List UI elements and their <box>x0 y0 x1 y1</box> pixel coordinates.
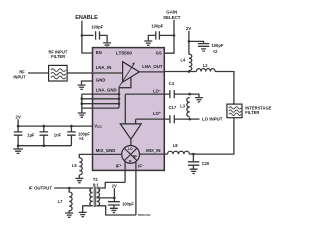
wire LNA_GND bundle lines <box>82 94 119 108</box>
wire IF+ line <box>124 162 126 183</box>
capacitor C 1uF <box>14 126 23 146</box>
svg-text:1µF: 1µF <box>27 133 35 138</box>
svg-text:8:1: 8:1 <box>93 182 100 187</box>
svg-text:LNA_IN: LNA_IN <box>96 65 112 70</box>
wire vcc bottom rail <box>18 145 71 147</box>
svg-text:SELECT: SELECT <box>163 15 181 20</box>
capacitor C4 <box>164 90 189 98</box>
node L4 bottom <box>188 70 191 73</box>
mixer M1 circle <box>122 146 140 164</box>
capacitor C20 <box>188 154 199 169</box>
ground (LNA_GND) <box>78 113 86 117</box>
svg-text:VCC: VCC <box>94 123 102 129</box>
ground (GND pin) <box>78 85 86 89</box>
gain arrow <box>119 64 134 87</box>
wire amp to mixer <box>130 139 132 145</box>
wire GS to C-gs <box>160 34 175 36</box>
svg-text:L3: L3 <box>180 104 186 109</box>
capacitor C-if 100pF <box>108 198 120 208</box>
inductor L7 <box>69 188 72 213</box>
wire ENABLE to C-enable <box>82 34 94 36</box>
svg-text:RF: RF <box>133 155 137 159</box>
node amp-gnd dots <box>118 93 121 96</box>
wire T2 center tap <box>97 197 115 199</box>
node C17 L3 junction <box>188 118 191 121</box>
wire ENABLE vertical <box>82 21 93 53</box>
ground (C-if) <box>110 208 118 212</box>
svg-text:GS: GS <box>156 51 162 56</box>
capacitor C 100pF x4 <box>67 126 76 146</box>
node GS junction <box>173 34 176 37</box>
op-amp A2 LO buffer <box>120 124 141 139</box>
wire MIX_GND to L5 <box>79 154 121 158</box>
svg-text:×4: ×4 <box>79 136 84 141</box>
wire filter to MIX_IN row <box>193 118 234 154</box>
capacitor C 1nF <box>40 126 49 146</box>
wire 2V stub <box>113 188 115 198</box>
filter FL1 RF input filter box <box>49 65 68 81</box>
wire GND pin <box>82 81 93 85</box>
inductor L5 <box>79 158 82 175</box>
capacitor 100pF x2 with ground <box>198 44 209 52</box>
wire T2 primary bottom to IF- <box>97 206 136 215</box>
wire C-gs to ground <box>148 35 156 40</box>
svg-text:L5: L5 <box>72 163 78 168</box>
wire T2 primary top to IF+ <box>97 182 125 188</box>
wire filter to LNA_IN <box>67 72 123 74</box>
ground (vcc rail) <box>13 149 23 153</box>
svg-text:2V: 2V <box>16 115 21 120</box>
wire GAIN SELECT vertical <box>164 20 174 53</box>
wire IF OUTPUT <box>54 187 92 189</box>
svg-text:MIX_IN: MIX_IN <box>146 148 160 153</box>
svg-text:IF OUTPUT: IF OUTPUT <box>29 185 52 190</box>
inductor L3 <box>187 98 190 117</box>
svg-text:L2: L2 <box>203 63 209 68</box>
wire 2V to cap <box>189 41 204 43</box>
svg-text:FILTER: FILTER <box>51 54 65 59</box>
capacitor C17 <box>164 115 189 123</box>
ground (enable cap) <box>103 43 111 47</box>
wire MIX row left <box>189 153 193 155</box>
wire RF INPUT <box>28 72 49 74</box>
svg-text:EN: EN <box>96 50 102 55</box>
filter FL2 interstage filter box <box>227 104 242 118</box>
svg-text:LT5500: LT5500 <box>116 50 133 56</box>
wire LO+ internal <box>136 119 165 124</box>
node bottom rail dots <box>17 144 20 147</box>
svg-text:LO: LO <box>128 147 133 151</box>
svg-text:L7: L7 <box>58 199 64 204</box>
IC U1 LT5500 body <box>93 48 165 171</box>
ground (LO- node) <box>195 98 203 102</box>
svg-text:GND: GND <box>96 78 106 83</box>
wire amp ground step <box>119 77 131 108</box>
node L7 junction <box>68 187 71 190</box>
svg-text:IF: IF <box>129 160 132 164</box>
wire L2 to filter <box>215 72 234 105</box>
node vcc dots <box>17 125 20 128</box>
wire L8 stub <box>164 153 167 155</box>
wire C4 node to ground <box>190 94 199 97</box>
svg-text:GAIN: GAIN <box>166 9 177 14</box>
capacitor C-enable 100pF <box>96 31 100 39</box>
svg-text:L8: L8 <box>173 143 179 148</box>
svg-text:2V: 2V <box>186 26 191 31</box>
ground (gs cap) <box>144 41 152 45</box>
inductor L8 <box>168 151 190 154</box>
svg-text:5500 F01: 5500 F01 <box>138 213 151 217</box>
svg-text:LNA_GND: LNA_GND <box>96 87 117 92</box>
node ENABLE junction <box>81 34 84 37</box>
svg-text:100pF: 100pF <box>122 201 134 206</box>
svg-text:×2: ×2 <box>213 49 218 54</box>
node center tap junction <box>113 197 116 200</box>
wire MIX_IN internal <box>140 153 165 155</box>
op-amp A1 LNA triangle <box>123 62 140 82</box>
wire LNA_OUT row <box>139 71 196 73</box>
svg-text:100pF: 100pF <box>212 43 224 48</box>
IC pin labels <box>94 50 163 168</box>
ground (L5) <box>75 178 83 182</box>
transformer phase dots <box>89 189 91 191</box>
capacitor C-gs 100pF <box>156 31 160 39</box>
node 2V junction <box>188 40 191 43</box>
svg-text:2V: 2V <box>112 184 117 189</box>
svg-text:1nF: 1nF <box>54 133 62 138</box>
wire T2 secondary bottom to ground <box>83 206 93 212</box>
svg-text:INPUT: INPUT <box>13 75 26 80</box>
node bundle dots <box>81 98 84 101</box>
wire VCC rail <box>18 119 92 126</box>
transformer T2 left winding <box>90 188 93 206</box>
svg-text:LO INPUT: LO INPUT <box>202 117 223 122</box>
ground (T2 secondary) <box>79 212 87 216</box>
svg-text:LNA_OUT: LNA_OUT <box>142 64 163 69</box>
svg-text:100pF: 100pF <box>91 24 103 29</box>
node C4 L3 junction <box>188 93 191 96</box>
transformer T2 right winding <box>97 188 100 206</box>
transformer T2 core <box>94 187 96 207</box>
wire LNA_GND bar <box>81 94 83 113</box>
node C20 junction <box>192 153 195 156</box>
wire to ground <box>17 146 19 149</box>
ground (L7) <box>65 213 73 217</box>
wire L4 to 2V <box>188 31 190 54</box>
wire LO- internal <box>125 94 164 124</box>
wire LO INPUT <box>190 118 200 120</box>
svg-text:FILTER: FILTER <box>245 110 259 115</box>
wire L5 to ground <box>78 175 80 178</box>
svg-text:C4: C4 <box>169 81 175 86</box>
svg-text:MIX_GND: MIX_GND <box>96 148 116 153</box>
svg-text:L4: L4 <box>181 57 187 62</box>
svg-text:C20: C20 <box>202 161 210 166</box>
wire C-enable to ground <box>100 35 108 42</box>
svg-text:C17: C17 <box>169 105 177 110</box>
inductor L4 <box>189 54 192 70</box>
wire IF- line <box>135 162 137 216</box>
ground (C20) <box>190 169 198 173</box>
svg-text:ENABLE: ENABLE <box>75 15 98 21</box>
svg-text:100pF: 100pF <box>151 23 163 28</box>
inductor L2 <box>196 69 215 72</box>
